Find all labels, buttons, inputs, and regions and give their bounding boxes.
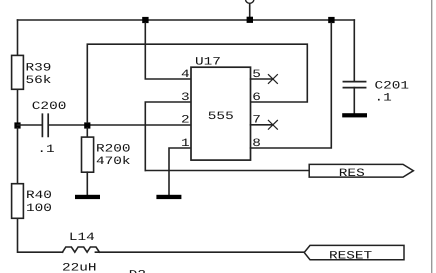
- wire pin 7 no-connect: [251, 124, 273, 126]
- wire R40 down to bottom row: [18, 218, 63, 252]
- wire loop node up across and down to pin 6: [87, 44, 307, 122]
- wire pin 1 out: [169, 148, 191, 195]
- svg-text:3: 3: [181, 92, 190, 104]
- svg-text:R40: R40: [26, 190, 52, 202]
- wire rail to C201: [353, 20, 355, 82]
- svg-text:L14: L14: [69, 232, 95, 244]
- ground bar under pin 1: [156, 195, 181, 199]
- wire rail down to R39: [17, 20, 19, 55]
- capacitor C201: [343, 82, 365, 88]
- resistor R39: [12, 55, 24, 89]
- svg-text:RES: RES: [339, 168, 365, 180]
- wire C201 to ground: [353, 88, 355, 114]
- svg-text:C200: C200: [32, 101, 67, 113]
- wire C200 left lead: [18, 124, 42, 126]
- junction node R200 / pin2 / loop: [84, 122, 90, 128]
- IC U1 555 box: [191, 67, 251, 160]
- power symbol VCC: [246, 0, 254, 3]
- wire pin 8 out and up to rail: [251, 23, 332, 148]
- svg-text:C201: C201: [375, 80, 410, 92]
- no-connect X pin 5: [268, 75, 277, 84]
- resistor R40: [12, 184, 24, 219]
- svg-text:100: 100: [26, 203, 52, 215]
- wire top rail: [18, 19, 355, 21]
- border frame right: [431, 0, 433, 273]
- svg-text:555: 555: [208, 111, 234, 123]
- svg-text:R200: R200: [96, 143, 131, 155]
- wire R200 to ground: [86, 172, 88, 195]
- wire pin 3 out and down to RES wire: [145, 102, 191, 171]
- svg-text:.1: .1: [37, 144, 55, 156]
- resistor R200: [82, 137, 94, 172]
- svg-text:RESET: RESET: [329, 250, 372, 262]
- svg-text:R39: R39: [26, 62, 52, 74]
- wire pin 5 no-connect: [251, 78, 273, 80]
- svg-text:5: 5: [252, 69, 261, 81]
- wire node down to R40: [17, 128, 19, 184]
- ground bar under R200: [75, 195, 100, 199]
- wire power stem: [249, 4, 251, 18]
- inductor L14: [63, 247, 100, 252]
- svg-text:8: 8: [252, 138, 261, 150]
- svg-text:1: 1: [181, 138, 190, 150]
- svg-text:56k: 56k: [26, 74, 52, 87]
- wire R200 stem: [86, 128, 88, 137]
- svg-text:U17: U17: [195, 56, 221, 68]
- no-connect X pin 7: [268, 120, 277, 129]
- svg-text:4: 4: [181, 69, 190, 81]
- svg-text:470k: 470k: [96, 155, 131, 168]
- wire rail down to pin 4: [145, 23, 191, 79]
- junction on rail above pin 4: [142, 17, 148, 23]
- svg-text:.1: .1: [375, 92, 393, 104]
- svg-text:7: 7: [252, 115, 261, 127]
- ground bar under C201: [342, 113, 367, 117]
- wire R39 to node: [17, 89, 19, 125]
- svg-text:2: 2: [181, 115, 190, 127]
- capacitor C200: [42, 114, 48, 136]
- connector RES: [309, 164, 413, 177]
- junction node left column / C200: [14, 122, 20, 128]
- wire RES net: [145, 170, 309, 172]
- wire L14 to RESET connector: [95, 251, 304, 253]
- junction on rail above pin 8: [328, 17, 334, 23]
- wire C200 right lead to trigger node to pin 2: [49, 124, 191, 126]
- connector RESET: [304, 245, 404, 259]
- svg-text:D2: D2: [129, 270, 146, 273]
- svg-text:22uH: 22uH: [62, 262, 97, 273]
- junction on rail at power tap: [247, 17, 253, 23]
- svg-text:6: 6: [252, 92, 261, 104]
